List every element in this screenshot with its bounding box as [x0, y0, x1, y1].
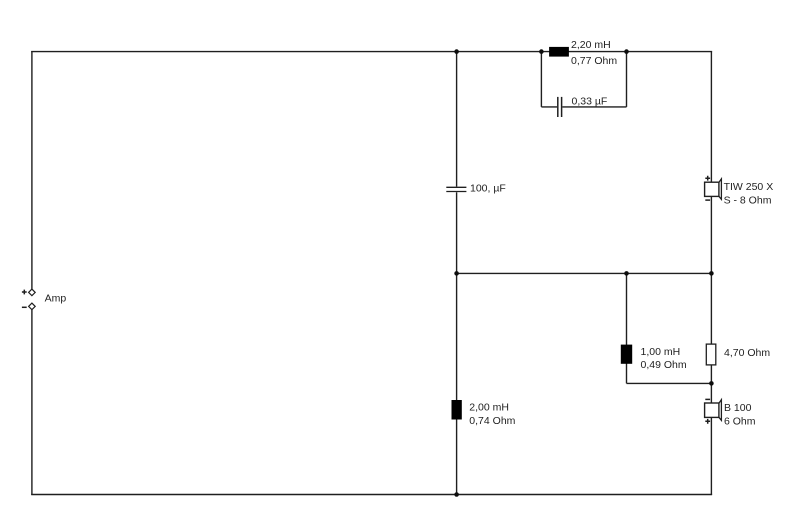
speaker SP2 plus mark — [705, 419, 710, 424]
svg-text:S - 8 Ohm: S - 8 Ohm — [724, 194, 772, 206]
inductor L3 2,00 mH body — [452, 400, 462, 420]
node junction dot top/parallel-left — [539, 49, 544, 54]
svg-text:0,49 Ohm: 0,49 Ohm — [641, 359, 687, 371]
svg-text:4,70 Ohm: 4,70 Ohm — [724, 347, 770, 359]
node junction dot top/parallel-right — [624, 49, 629, 54]
wire middle vertical upper (above capacitor C2) — [456, 52, 458, 187]
speaker SP1 minus mark — [705, 199, 710, 201]
svg-text:0,33 µF: 0,33 µF — [572, 96, 608, 108]
wire right rail — [710, 51, 712, 495]
inductor L1 2,20 mH body — [549, 47, 569, 57]
wire middle vertical lower (below capacitor C2) — [456, 192, 458, 494]
capacitor C2 100 µF plates — [446, 187, 466, 191]
node junction dot top/middle-vertical — [454, 49, 459, 54]
inductor L2 1,00 mH body — [621, 345, 632, 364]
speaker SP2 minus mark — [705, 398, 710, 400]
node junction dot mid-rail/middle-vertical — [454, 271, 459, 276]
svg-text:6 Ohm: 6 Ohm — [724, 415, 756, 427]
resistor R1 4,70 Ohm body — [706, 344, 716, 365]
svg-text:1,00 mH: 1,00 mH — [641, 346, 681, 358]
wire left rail upper (to Amp + terminal) — [31, 51, 33, 289]
speaker SP1 plus mark — [705, 176, 710, 181]
wire parallel-branch left drop — [540, 52, 542, 107]
wire top rail — [31, 51, 712, 53]
amp terminal plus diamond — [29, 289, 36, 296]
wire parallel-branch right drop — [626, 52, 628, 107]
capacitor C1 0,33 µF plates — [558, 97, 562, 117]
node junction dot bottom/middle-vertical — [454, 492, 459, 497]
svg-text:B 100: B 100 — [724, 402, 752, 414]
speaker SP1 cone — [719, 179, 722, 199]
svg-text:TIW 250 X: TIW 250 X — [724, 181, 774, 193]
wire left rail lower (from Amp - terminal) — [31, 310, 33, 495]
svg-text:0,74 Ohm: 0,74 Ohm — [469, 415, 515, 427]
wire middle horizontal node rail — [457, 272, 712, 274]
node junction dot RL-branch/right-rail — [709, 381, 714, 386]
amp terminal minus diamond — [29, 303, 36, 310]
wire parallel-branch bottom right segment — [562, 106, 626, 108]
node junction dot mid-rail/L2-branch — [624, 271, 629, 276]
svg-text:Amp: Amp — [45, 292, 67, 304]
speaker SP2 cone — [719, 400, 722, 421]
wire RL-branch bottom horizontal — [627, 382, 712, 384]
svg-text:0,77 Ohm: 0,77 Ohm — [571, 55, 617, 67]
amp plus mark — [22, 290, 27, 295]
wire RL-branch vertical (through L2) — [626, 273, 628, 383]
wire bottom rail — [31, 494, 712, 496]
amp minus mark — [22, 306, 27, 308]
node junction dot mid-rail/right-rail — [709, 271, 714, 276]
wire parallel-branch bottom left segment — [541, 106, 557, 108]
speaker SP1 TIW 250 XS box — [705, 176, 722, 200]
speaker SP2 B 100 box — [705, 399, 722, 423]
svg-text:100, µF: 100, µF — [470, 182, 506, 194]
svg-text:2,20 mH: 2,20 mH — [571, 39, 611, 51]
svg-text:2,00 mH: 2,00 mH — [469, 402, 509, 414]
